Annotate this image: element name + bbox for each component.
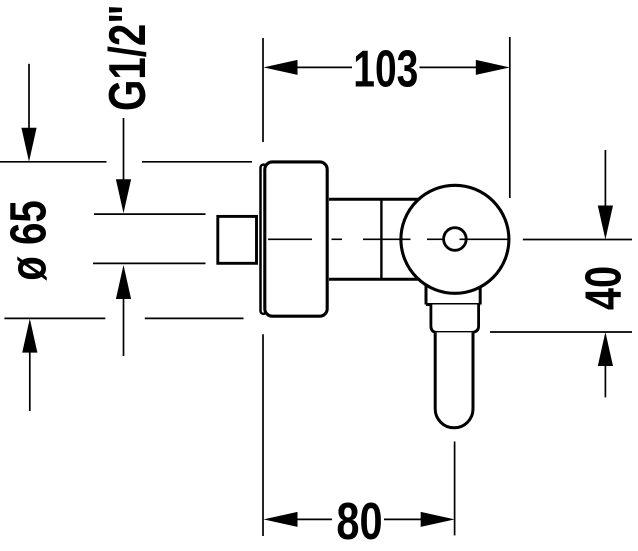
dimension G1/2: top arrow (points down to pipe top): [116, 118, 131, 213]
centerline dash across cylinder joint: [363, 238, 411, 240]
dimension 80: left extension line: [262, 334, 264, 536]
pipe top extension line: [94, 213, 206, 215]
dimension G1/2: bottom arrow (points up to pipe bottom): [116, 265, 131, 356]
flange bottom extension line (two segments): [4, 317, 243, 319]
cylinder joint line: [380, 199, 382, 279]
dimension 103: left extension line: [262, 38, 264, 142]
dimension 40: top arrow (points down to center line): [598, 150, 613, 240]
dimension 80: left arrow: [264, 512, 333, 527]
centerline dash inside flange: [268, 238, 312, 240]
lever centerline tick below lever: [454, 442, 456, 536]
pipe bottom extension line: [93, 262, 206, 264]
dimension 40: center reference line: [523, 239, 632, 241]
svg-text:80: 80: [336, 491, 382, 550]
escutcheon back plate (thin band): [261, 165, 267, 314]
lever handle (vertical stadium shape): [435, 332, 473, 427]
dimension 80: value label: [336, 491, 382, 550]
dimension 40: value label: [575, 266, 632, 310]
escutcheon flange (rounded rectangle): [265, 162, 327, 316]
handle hub (small circle): [444, 228, 467, 251]
centerline dash to hub: [427, 238, 443, 240]
centerline dash right of flange: [332, 238, 343, 240]
dimension 40: lever top reference line: [490, 331, 632, 333]
dimension 80: right arrow: [384, 512, 455, 527]
dimension ø65: label: [0, 200, 57, 281]
dimension 103: right extension line: [509, 37, 511, 198]
centerline dash hub to disc edge: [460, 238, 510, 240]
dimension G1/2: label: [98, 5, 156, 111]
svg-text:103: 103: [353, 39, 418, 98]
handle disc (big circle): [401, 185, 509, 293]
dimension ø65: bottom arrow (points up to flange bottom): [22, 319, 37, 411]
dimension 40: bottom arrow (points up to lever top line): [598, 332, 613, 397]
dimension 103: right arrow: [420, 60, 510, 75]
wall pipe stub: [218, 216, 257, 263]
svg-text:ø 65: ø 65: [0, 200, 57, 281]
dimension 103: value label: [353, 39, 418, 98]
dimension 103: left arrow: [264, 60, 353, 75]
flange top extension line (two segments): [0, 161, 252, 163]
svg-text:40: 40: [575, 266, 632, 310]
svg-text:G1/2": G1/2": [98, 5, 156, 111]
collar band 2 (lower collar): [431, 305, 479, 333]
valve body cylinder top edge: [329, 198, 419, 201]
collar band 1 (upper collar below handle disc): [426, 280, 480, 305]
valve body cylinder bottom edge: [329, 278, 419, 281]
dimension ø65: top arrow (points down to flange top): [21, 64, 36, 162]
